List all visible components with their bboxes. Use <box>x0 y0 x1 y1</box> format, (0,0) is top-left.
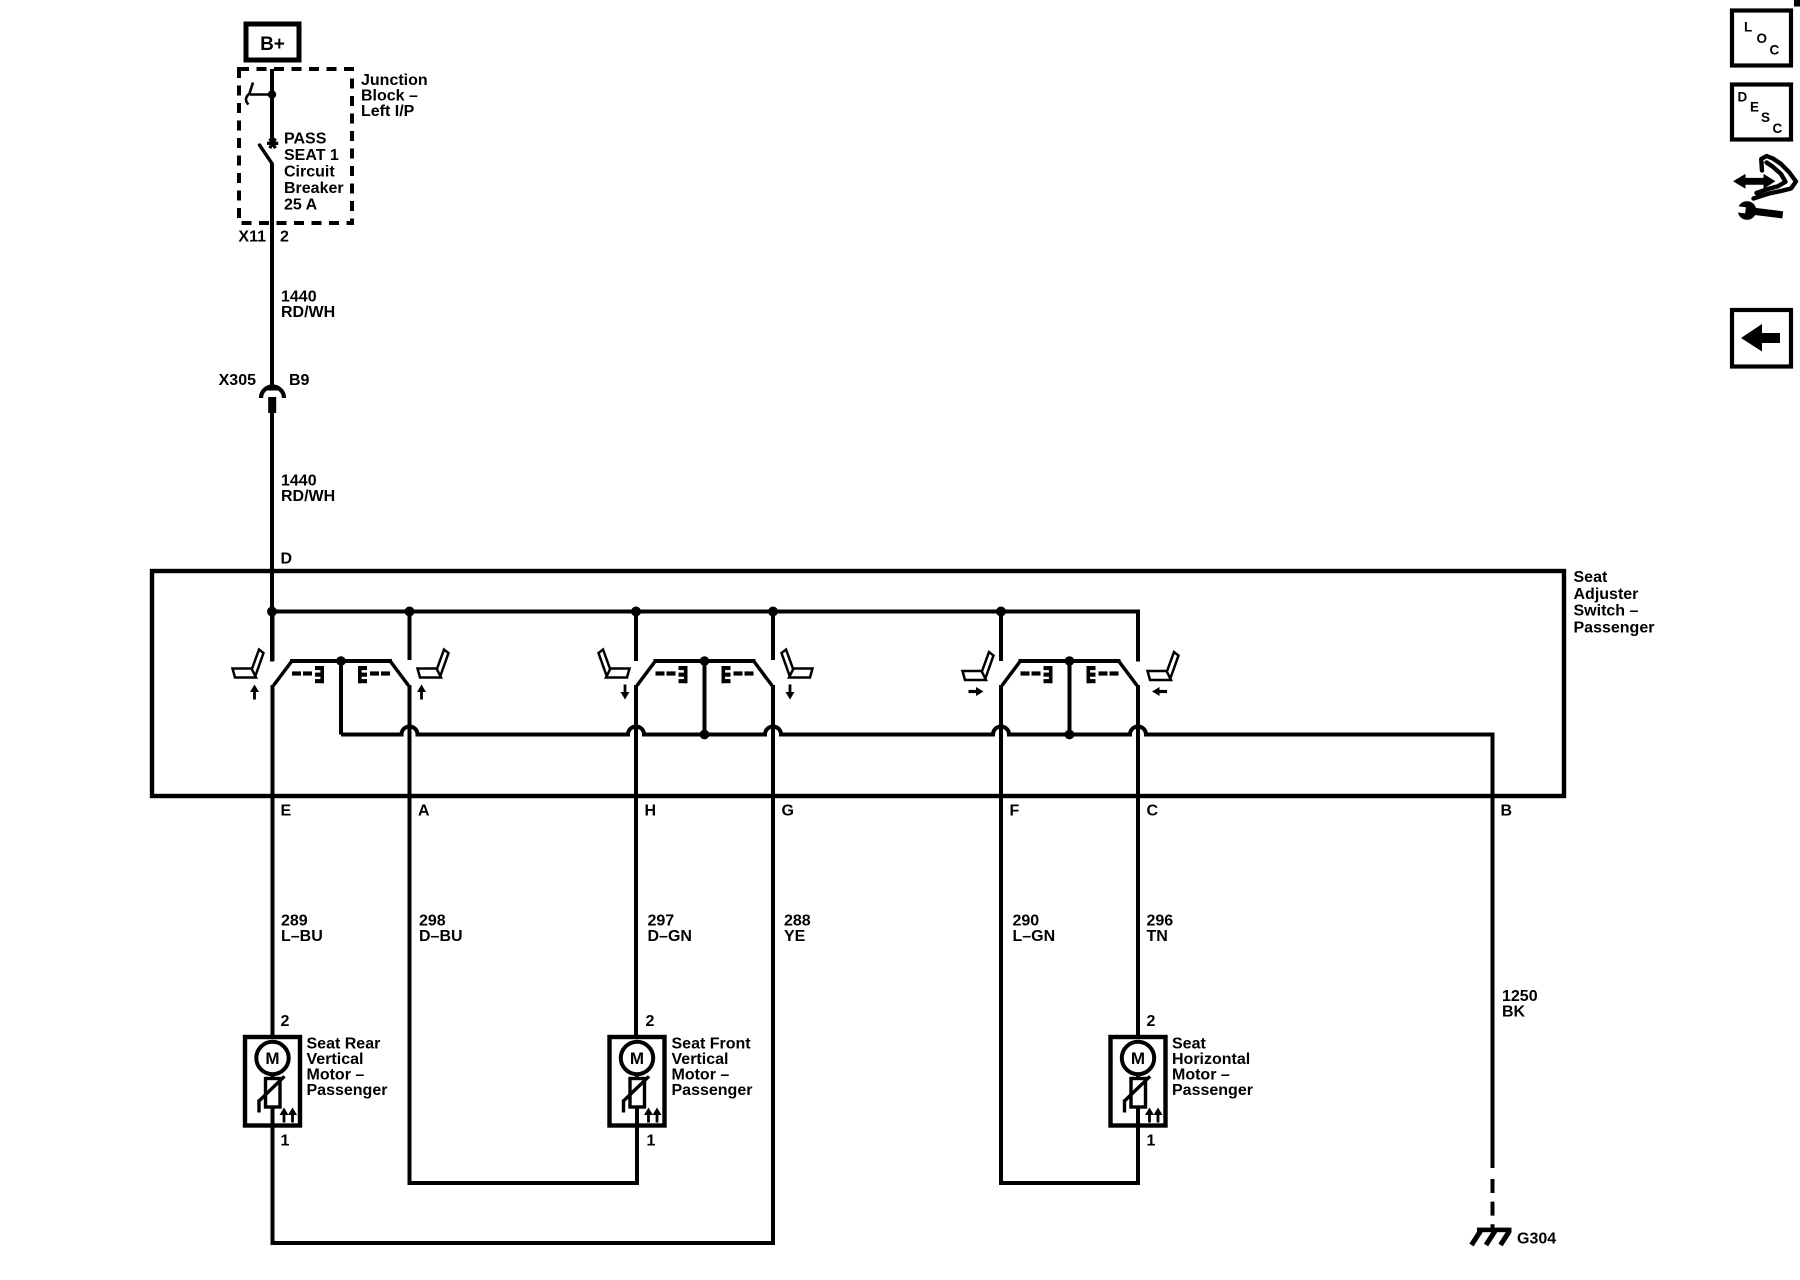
svg-text:C: C <box>1147 803 1159 820</box>
svg-text:Passenger: Passenger <box>307 1082 388 1099</box>
svg-text:L–GN: L–GN <box>1013 928 1056 945</box>
wire label 1440 RD/WH (upper) <box>281 289 335 322</box>
seat adjuster switch label <box>1574 569 1655 636</box>
wire from circuit breaker to connector X305 <box>270 163 274 387</box>
seat icon (horizontal back, right of pack 3) <box>1148 652 1179 680</box>
wire label 1440 RD/WH (lower) <box>281 473 335 506</box>
wire from B+ into junction block <box>270 69 274 142</box>
junction block dashed outline (Junction Block - Left I/P) <box>239 69 352 223</box>
svg-text:B+: B+ <box>260 34 285 55</box>
svg-text:298: 298 <box>419 913 446 930</box>
svg-text:A: A <box>418 803 430 820</box>
svg-text:D–BU: D–BU <box>419 928 463 945</box>
svg-text:F: F <box>1010 803 1020 820</box>
wire 297 D-GN (pin H to motor M2 pin 2) <box>636 685 692 1037</box>
svg-text:Block –: Block – <box>361 88 418 105</box>
svg-text:L–BU: L–BU <box>281 928 323 945</box>
svg-text:G304: G304 <box>1517 1231 1556 1248</box>
svg-text:C: C <box>1773 121 1783 136</box>
junction block terminal clip <box>246 83 276 105</box>
svg-text:1440: 1440 <box>281 289 317 306</box>
wire from X305 to switch (node D) <box>270 413 274 571</box>
svg-text:290: 290 <box>1013 913 1040 930</box>
svg-text:Seat Front: Seat Front <box>672 1036 752 1053</box>
svg-text:TN: TN <box>1147 928 1168 945</box>
connector pins label X11 / 2 <box>238 229 289 246</box>
svg-text:1: 1 <box>281 1133 290 1150</box>
switch common output wire to pin B (with crossover hops) <box>341 727 1493 799</box>
svg-text:M: M <box>1131 1049 1145 1068</box>
svg-text:BK: BK <box>1502 1004 1526 1021</box>
svg-text:E: E <box>1750 100 1759 115</box>
switch pack 1 (seat rear vertical, contacts E/A) <box>273 612 410 735</box>
svg-text:D–GN: D–GN <box>648 928 692 945</box>
arrow left (pack 3 right) <box>1152 687 1167 696</box>
svg-text:Circuit: Circuit <box>284 164 335 181</box>
svg-text:Passenger: Passenger <box>1574 619 1655 636</box>
svg-text:2: 2 <box>646 1013 655 1030</box>
back navigation arrow box <box>1732 310 1791 367</box>
wire 290 L-GN (pin F to motor M3 pin 1) <box>1001 685 1138 1183</box>
svg-text:Horizontal: Horizontal <box>1172 1051 1250 1068</box>
seat adjuster switch outline box <box>152 571 1564 796</box>
svg-text:B9: B9 <box>289 372 310 389</box>
in-line connector X305 pin B9 <box>219 372 310 413</box>
svg-text:RD/WH: RD/WH <box>281 304 335 321</box>
svg-text:Vertical: Vertical <box>307 1051 364 1068</box>
pin B label <box>1501 803 1513 820</box>
wire 1250 BK dashed segment <box>1491 1179 1495 1230</box>
svg-text:X11: X11 <box>238 229 266 246</box>
scan mark top right corner <box>1794 0 1800 7</box>
svg-text:H: H <box>645 803 657 820</box>
svg-text:Motor –: Motor – <box>1172 1067 1230 1084</box>
svg-text:O: O <box>1757 31 1768 46</box>
circuit breaker label <box>284 131 344 214</box>
ground G304 <box>1472 1228 1557 1248</box>
svg-text:RD/WH: RD/WH <box>281 488 335 505</box>
circuit breaker PASS SEAT 1 25 A (asterisk contact + blade) <box>260 138 279 163</box>
svg-text:2: 2 <box>280 229 289 246</box>
pin C label <box>1147 803 1159 820</box>
svg-text:Seat: Seat <box>1574 569 1608 586</box>
junction block label <box>361 72 428 120</box>
wire 288 YE (pin G to motor M1 pin 1) <box>273 685 811 1243</box>
svg-text:B: B <box>1501 803 1513 820</box>
svg-text:YE: YE <box>784 928 806 945</box>
arrow down (pack 2 left) <box>621 685 630 700</box>
svg-text:25 A: 25 A <box>284 197 318 214</box>
svg-text:C: C <box>1770 42 1780 57</box>
svg-text:SEAT 1: SEAT 1 <box>284 147 339 164</box>
arrow up (pack 1 left) <box>250 685 259 700</box>
motor M2 Seat Front Vertical Motor - Passenger <box>610 1013 753 1150</box>
arrow down (pack 2 right) <box>786 685 795 700</box>
svg-text:M: M <box>630 1049 644 1068</box>
svg-text:M: M <box>265 1049 279 1068</box>
svg-text:PASS: PASS <box>284 131 327 148</box>
svg-text:289: 289 <box>281 913 308 930</box>
navigation arrows and wrench icon <box>1732 156 1796 224</box>
svg-text:Motor –: Motor – <box>672 1067 730 1084</box>
wire 1250 BK (pin B to ground G304) <box>1493 796 1538 1168</box>
pin A label <box>418 803 430 820</box>
seat icon (front down, right of pack 2) <box>782 650 813 678</box>
svg-text:2: 2 <box>281 1013 290 1030</box>
svg-text:297: 297 <box>648 913 675 930</box>
wire 296 TN (pin C to motor M3 pin 2) <box>1138 685 1173 1037</box>
supply bus wire inside switch (from node D) <box>270 571 1138 662</box>
LOC reference box <box>1732 11 1791 66</box>
arrow right (pack 3 left) <box>969 687 984 696</box>
svg-text:X305: X305 <box>219 372 256 389</box>
svg-text:E: E <box>281 803 292 820</box>
svg-text:Switch –: Switch – <box>1574 603 1639 620</box>
svg-text:Left I/P: Left I/P <box>361 103 415 120</box>
svg-text:Seat Rear: Seat Rear <box>307 1036 381 1053</box>
svg-text:D: D <box>1738 89 1748 104</box>
pin G label <box>782 803 794 820</box>
svg-text:Breaker: Breaker <box>284 180 344 197</box>
svg-text:Vertical: Vertical <box>672 1051 729 1068</box>
pin H label <box>645 803 657 820</box>
wire 298 D-BU (pin A to motor M2 pin 1) <box>410 685 638 1183</box>
pin F label <box>1010 803 1020 820</box>
svg-text:L: L <box>1744 19 1752 34</box>
battery feed B+ box <box>246 24 299 60</box>
seat icon (front down, left of pack 2) <box>599 650 630 678</box>
node D label <box>281 551 293 568</box>
svg-text:D: D <box>281 551 293 568</box>
svg-text:1: 1 <box>1147 1133 1156 1150</box>
svg-text:1: 1 <box>647 1133 656 1150</box>
arrow up (pack 1 right) <box>417 685 426 700</box>
svg-text:2: 2 <box>1147 1013 1156 1030</box>
DESC reference box <box>1732 85 1791 140</box>
switch pack 3 (seat horizontal, contacts F/C) <box>1001 612 1138 740</box>
seat icon (rear up, left of pack 1) <box>233 650 264 678</box>
svg-text:Junction: Junction <box>361 72 428 89</box>
svg-text:Motor –: Motor – <box>307 1067 365 1084</box>
svg-text:G: G <box>782 803 794 820</box>
motor M1 Seat Rear Vertical Motor - Passenger <box>245 1013 387 1150</box>
svg-text:288: 288 <box>784 913 811 930</box>
svg-text:1250: 1250 <box>1502 988 1538 1005</box>
seat icon (rear up, right of pack 1) <box>418 650 449 678</box>
seat icon (horizontal fwd, left of pack 3) <box>963 652 994 680</box>
svg-text:1440: 1440 <box>281 473 317 490</box>
svg-text:296: 296 <box>1147 913 1174 930</box>
svg-text:Adjuster: Adjuster <box>1574 586 1639 603</box>
svg-text:S: S <box>1761 110 1770 125</box>
svg-text:Seat: Seat <box>1172 1036 1206 1053</box>
svg-text:Passenger: Passenger <box>1172 1082 1253 1099</box>
pin E label <box>281 803 292 820</box>
bus junction dots <box>267 607 1006 617</box>
wire 289 L-BU (pin E to motor M1 pin 2) <box>273 685 323 1037</box>
motor M3 Seat Horizontal Motor - Passenger <box>1111 1013 1253 1150</box>
switch pack 2 (seat front vertical, contacts H/G) <box>636 612 773 740</box>
svg-text:Passenger: Passenger <box>672 1082 753 1099</box>
